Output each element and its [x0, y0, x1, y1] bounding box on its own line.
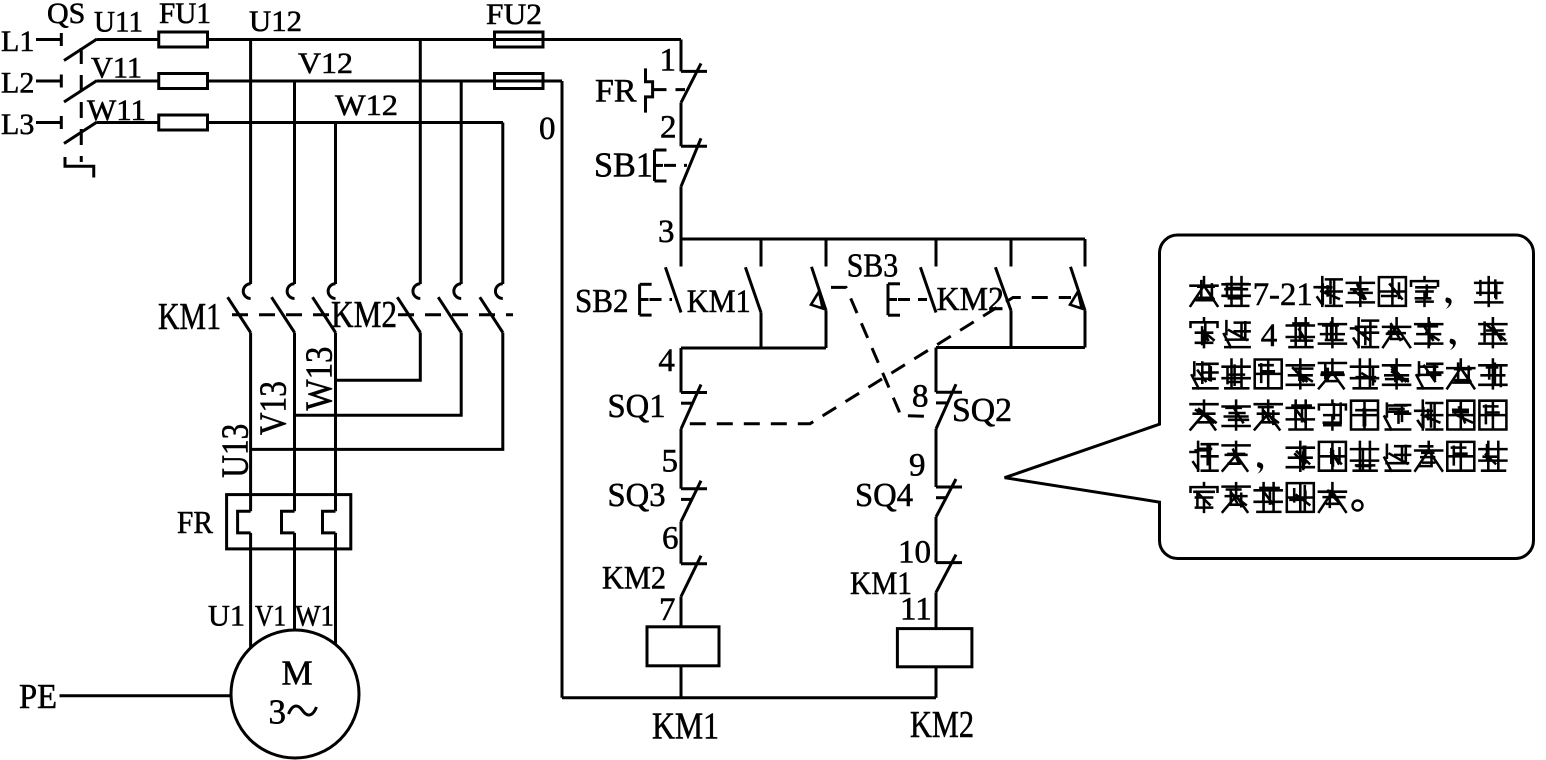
fuse FU1 pole 2	[159, 74, 208, 89]
svg-text:4: 4	[658, 343, 675, 379]
node 2 label	[660, 110, 677, 146]
svg-text:FU2: FU2	[486, 0, 542, 31]
svg-text:SQ4: SQ4	[855, 477, 913, 514]
svg-text:W12: W12	[335, 89, 398, 122]
motor M 3-phase	[231, 630, 359, 758]
svg-text:SQ1: SQ1	[608, 388, 666, 425]
wire node7 segment	[680, 597, 683, 627]
contactor KM2 main contact pole 3	[480, 284, 503, 333]
node 1 label	[660, 43, 677, 79]
contact SB3 normally-open	[920, 239, 936, 313]
svg-text:KM1: KM1	[158, 296, 221, 338]
label U1	[208, 600, 245, 633]
mechanical link FR	[654, 88, 686, 91]
node 9 label	[909, 448, 926, 484]
label KM2 interlock	[602, 561, 666, 597]
wire control phase rail top	[680, 40, 683, 72]
label KM2 auxiliary	[937, 281, 1005, 318]
svg-text:FR: FR	[177, 504, 214, 540]
callout balloon box	[1005, 235, 1534, 559]
wire node 8 junction line	[936, 346, 1085, 349]
svg-text:KM2: KM2	[331, 294, 397, 336]
label KM2 main contacts	[331, 294, 397, 336]
fuse FU1 pole 1	[159, 32, 208, 47]
svg-text:PE: PE	[19, 677, 57, 716]
node L1 label	[1, 25, 34, 58]
wire U13	[249, 333, 252, 495]
contact KM1 interlock normally-closed	[936, 555, 962, 593]
svg-text:QS: QS	[47, 0, 85, 30]
node 11 label	[900, 592, 932, 628]
label QS	[47, 0, 85, 30]
svg-text:6: 6	[662, 521, 679, 557]
svg-text:7: 7	[659, 592, 676, 628]
wire V12 feed	[208, 80, 563, 83]
contact SQ4 normally-closed limit	[936, 479, 962, 517]
contactor KM1 main contact pole 3	[313, 284, 336, 333]
wire U1 motor lead	[249, 549, 252, 649]
svg-text:V11: V11	[91, 52, 142, 85]
svg-text:FU1: FU1	[159, 0, 211, 30]
contact SQ2 normally-open limit	[811, 239, 826, 311]
svg-text:W1: W1	[295, 600, 334, 633]
contact KM2 interlock normally-closed	[681, 556, 707, 597]
svg-text:KM1: KM1	[652, 706, 719, 748]
mechanical link KM1 main	[232, 313, 330, 316]
label W1	[295, 600, 334, 633]
wire control bottom return	[562, 696, 936, 699]
wire KM1 coil to bottom	[680, 666, 683, 698]
label SQ4	[855, 477, 913, 514]
svg-text:W13: W13	[298, 347, 340, 411]
svg-text:U12: U12	[249, 5, 302, 38]
wire control bus node 3	[681, 238, 1085, 241]
pushbutton SB2 actuator	[640, 284, 652, 315]
wire node5 segment	[680, 429, 683, 489]
mechanical link SB3	[898, 298, 927, 301]
node 0 label	[539, 111, 556, 147]
wire V13	[293, 333, 296, 495]
thermal overload relay FR heater elements	[227, 495, 351, 549]
wire node9 segment	[935, 429, 938, 487]
wire 0 rail vertical	[561, 81, 564, 698]
svg-text:L3: L3	[1, 108, 34, 141]
wire W11	[97, 121, 159, 124]
node 8 label	[912, 379, 929, 415]
thermal relay FR element symbol	[646, 68, 653, 112]
label W13	[298, 347, 340, 411]
disconnect switch QS	[61, 33, 97, 178]
mechanical link SB2	[650, 298, 673, 301]
svg-text:KM2: KM2	[602, 561, 666, 597]
label FR heaters	[177, 504, 214, 540]
wire node2-3 segment	[680, 187, 683, 239]
svg-text:4: 4	[1261, 318, 1278, 354]
wire KM2 pole3 to U13	[251, 333, 503, 450]
contact SQ3 normally-closed limit	[681, 481, 707, 522]
mechanical link SQ2 cross-connection	[831, 287, 934, 416]
wire W13	[334, 333, 337, 495]
node 6 label	[662, 521, 679, 557]
node L3 label	[1, 108, 34, 141]
svg-text:2: 2	[660, 110, 677, 146]
label SQ1	[608, 388, 666, 425]
wire KM2 pole1 feed	[419, 40, 422, 285]
label SB2	[575, 283, 629, 320]
node 10 label	[898, 535, 931, 571]
contact SQ1 normally-closed limit	[681, 385, 707, 430]
contactor KM1 main contact pole 2	[272, 284, 295, 333]
svg-text:SB3: SB3	[847, 248, 899, 285]
label W12	[335, 89, 398, 122]
label PE	[19, 677, 57, 716]
pushbutton SB1 actuator	[655, 150, 667, 181]
label U12	[249, 5, 302, 38]
svg-text:SQ3: SQ3	[608, 477, 666, 514]
wire KM1 pole3 feed	[334, 123, 337, 285]
label FU1	[159, 0, 211, 30]
wire V1 motor lead	[293, 549, 296, 631]
mechanical link SB1	[664, 164, 687, 167]
pushbutton SB3 actuator	[888, 284, 900, 315]
svg-text:SB2: SB2	[575, 283, 629, 320]
svg-text:KM1: KM1	[687, 284, 751, 320]
contactor KM2 main contact pole 1	[397, 284, 420, 333]
svg-text:0: 0	[539, 111, 556, 147]
wire PE	[60, 694, 232, 697]
coil KM1	[647, 627, 719, 666]
svg-text:W11: W11	[87, 94, 146, 127]
label V12	[298, 47, 353, 80]
wire node1-2 segment	[680, 103, 683, 147]
svg-text:KM2: KM2	[937, 281, 1005, 318]
label U11	[94, 6, 143, 39]
label V1	[255, 600, 286, 633]
contact SB2 normally-open	[665, 239, 681, 313]
contactor KM2 main contact pole 2	[438, 284, 461, 333]
wire node6 segment	[680, 522, 683, 564]
label KM1 auxiliary	[687, 284, 751, 320]
label KM2 coil	[910, 704, 974, 746]
label SB3	[847, 248, 899, 285]
label FR control	[595, 74, 637, 110]
svg-text:KM2: KM2	[910, 704, 974, 746]
wire node10 segment	[935, 517, 938, 563]
svg-text:L2: L2	[1, 67, 34, 100]
fuse FU2 pole 1	[495, 32, 544, 47]
wire W12 feed	[208, 121, 504, 124]
wire L2 supply lead	[36, 80, 61, 83]
contact KM2 auxiliary self-hold	[995, 239, 1011, 311]
label SQ3	[608, 477, 666, 514]
wire U11	[97, 38, 159, 41]
mechanical link SQ1 cross-connection	[690, 298, 1071, 424]
wire L3 supply lead	[36, 121, 61, 124]
wire KM2 aux lower	[1010, 311, 1013, 348]
contact SQ1 normally-open limit	[1070, 239, 1085, 311]
svg-text:FR: FR	[595, 74, 637, 110]
label KM1 coil	[652, 706, 719, 748]
wire KM1 aux lower	[760, 313, 763, 349]
contactor KM1 main contact pole 1	[228, 284, 251, 333]
wire V11	[97, 80, 159, 83]
callout text 在图7-21的基础上 6 lines	[1191, 277, 1507, 512]
label W11	[87, 94, 146, 127]
svg-text:11: 11	[900, 592, 932, 628]
wire 0 rail corner	[543, 80, 562, 83]
wire KM2 pole2 feed	[460, 81, 463, 284]
svg-text:V13: V13	[253, 381, 295, 435]
wire node4-SQ1 segment	[680, 348, 683, 393]
label KM1 interlock	[850, 566, 912, 602]
wire KM1 pole2 feed	[293, 81, 296, 284]
wire U12 feed	[208, 38, 682, 41]
label FU2	[486, 0, 542, 31]
svg-text:3: 3	[658, 214, 675, 250]
coil KM2	[897, 629, 972, 667]
wire KM2 pole3 feed	[501, 123, 504, 285]
label SQ2	[952, 392, 1012, 429]
svg-text:U11: U11	[94, 6, 143, 39]
contact SB1 normally-closed	[681, 138, 707, 186]
fuse FU2 pole 2	[495, 74, 544, 89]
label U13	[215, 424, 257, 478]
node 3 label	[658, 214, 675, 250]
wire SQ1-NO lower	[1084, 311, 1087, 348]
wire node 4 junction line	[681, 347, 826, 350]
svg-text:7-21: 7-21	[1253, 277, 1313, 313]
svg-text:U13: U13	[215, 424, 257, 478]
svg-text:V12: V12	[298, 47, 353, 80]
svg-text:V1: V1	[255, 600, 286, 633]
label 3~	[269, 693, 317, 732]
contact SQ2 normally-closed limit	[936, 384, 962, 429]
wire node8-SQ2 segment	[935, 348, 938, 393]
node 5 label	[662, 444, 679, 480]
svg-text:8: 8	[912, 379, 929, 415]
node 7 label	[659, 592, 676, 628]
svg-text:M: M	[282, 654, 313, 693]
node L2 label	[1, 67, 34, 100]
contact FR normally-closed	[681, 63, 707, 102]
svg-text:5: 5	[662, 444, 679, 480]
wire KM2 pole2 to V13	[295, 333, 462, 416]
wire KM2 pole1 to W13	[336, 333, 421, 381]
label SB1	[594, 146, 653, 185]
mechanical link KM2 main	[398, 313, 513, 316]
svg-text:U1: U1	[208, 600, 245, 633]
wire L1 supply lead	[36, 38, 61, 41]
svg-text:SB1: SB1	[594, 146, 653, 185]
label V11	[91, 52, 142, 85]
fuse FU1 pole 3	[159, 115, 208, 130]
wire node11 segment	[935, 592, 938, 628]
svg-text:SQ2: SQ2	[952, 392, 1012, 429]
svg-text:3: 3	[269, 693, 287, 732]
wire SQ2-NO lower	[825, 311, 828, 349]
label M	[282, 654, 313, 693]
label V13	[253, 381, 295, 435]
label KM1 main contacts	[158, 296, 221, 338]
node 4 label	[658, 343, 675, 379]
wire W1 motor lead	[334, 549, 337, 645]
wire KM2 coil to bottom	[935, 667, 938, 698]
svg-text:L1: L1	[1, 25, 34, 58]
wire KM1 pole1 feed	[249, 40, 252, 285]
svg-text:1: 1	[660, 43, 677, 79]
contact KM1 auxiliary self-hold	[745, 239, 761, 313]
